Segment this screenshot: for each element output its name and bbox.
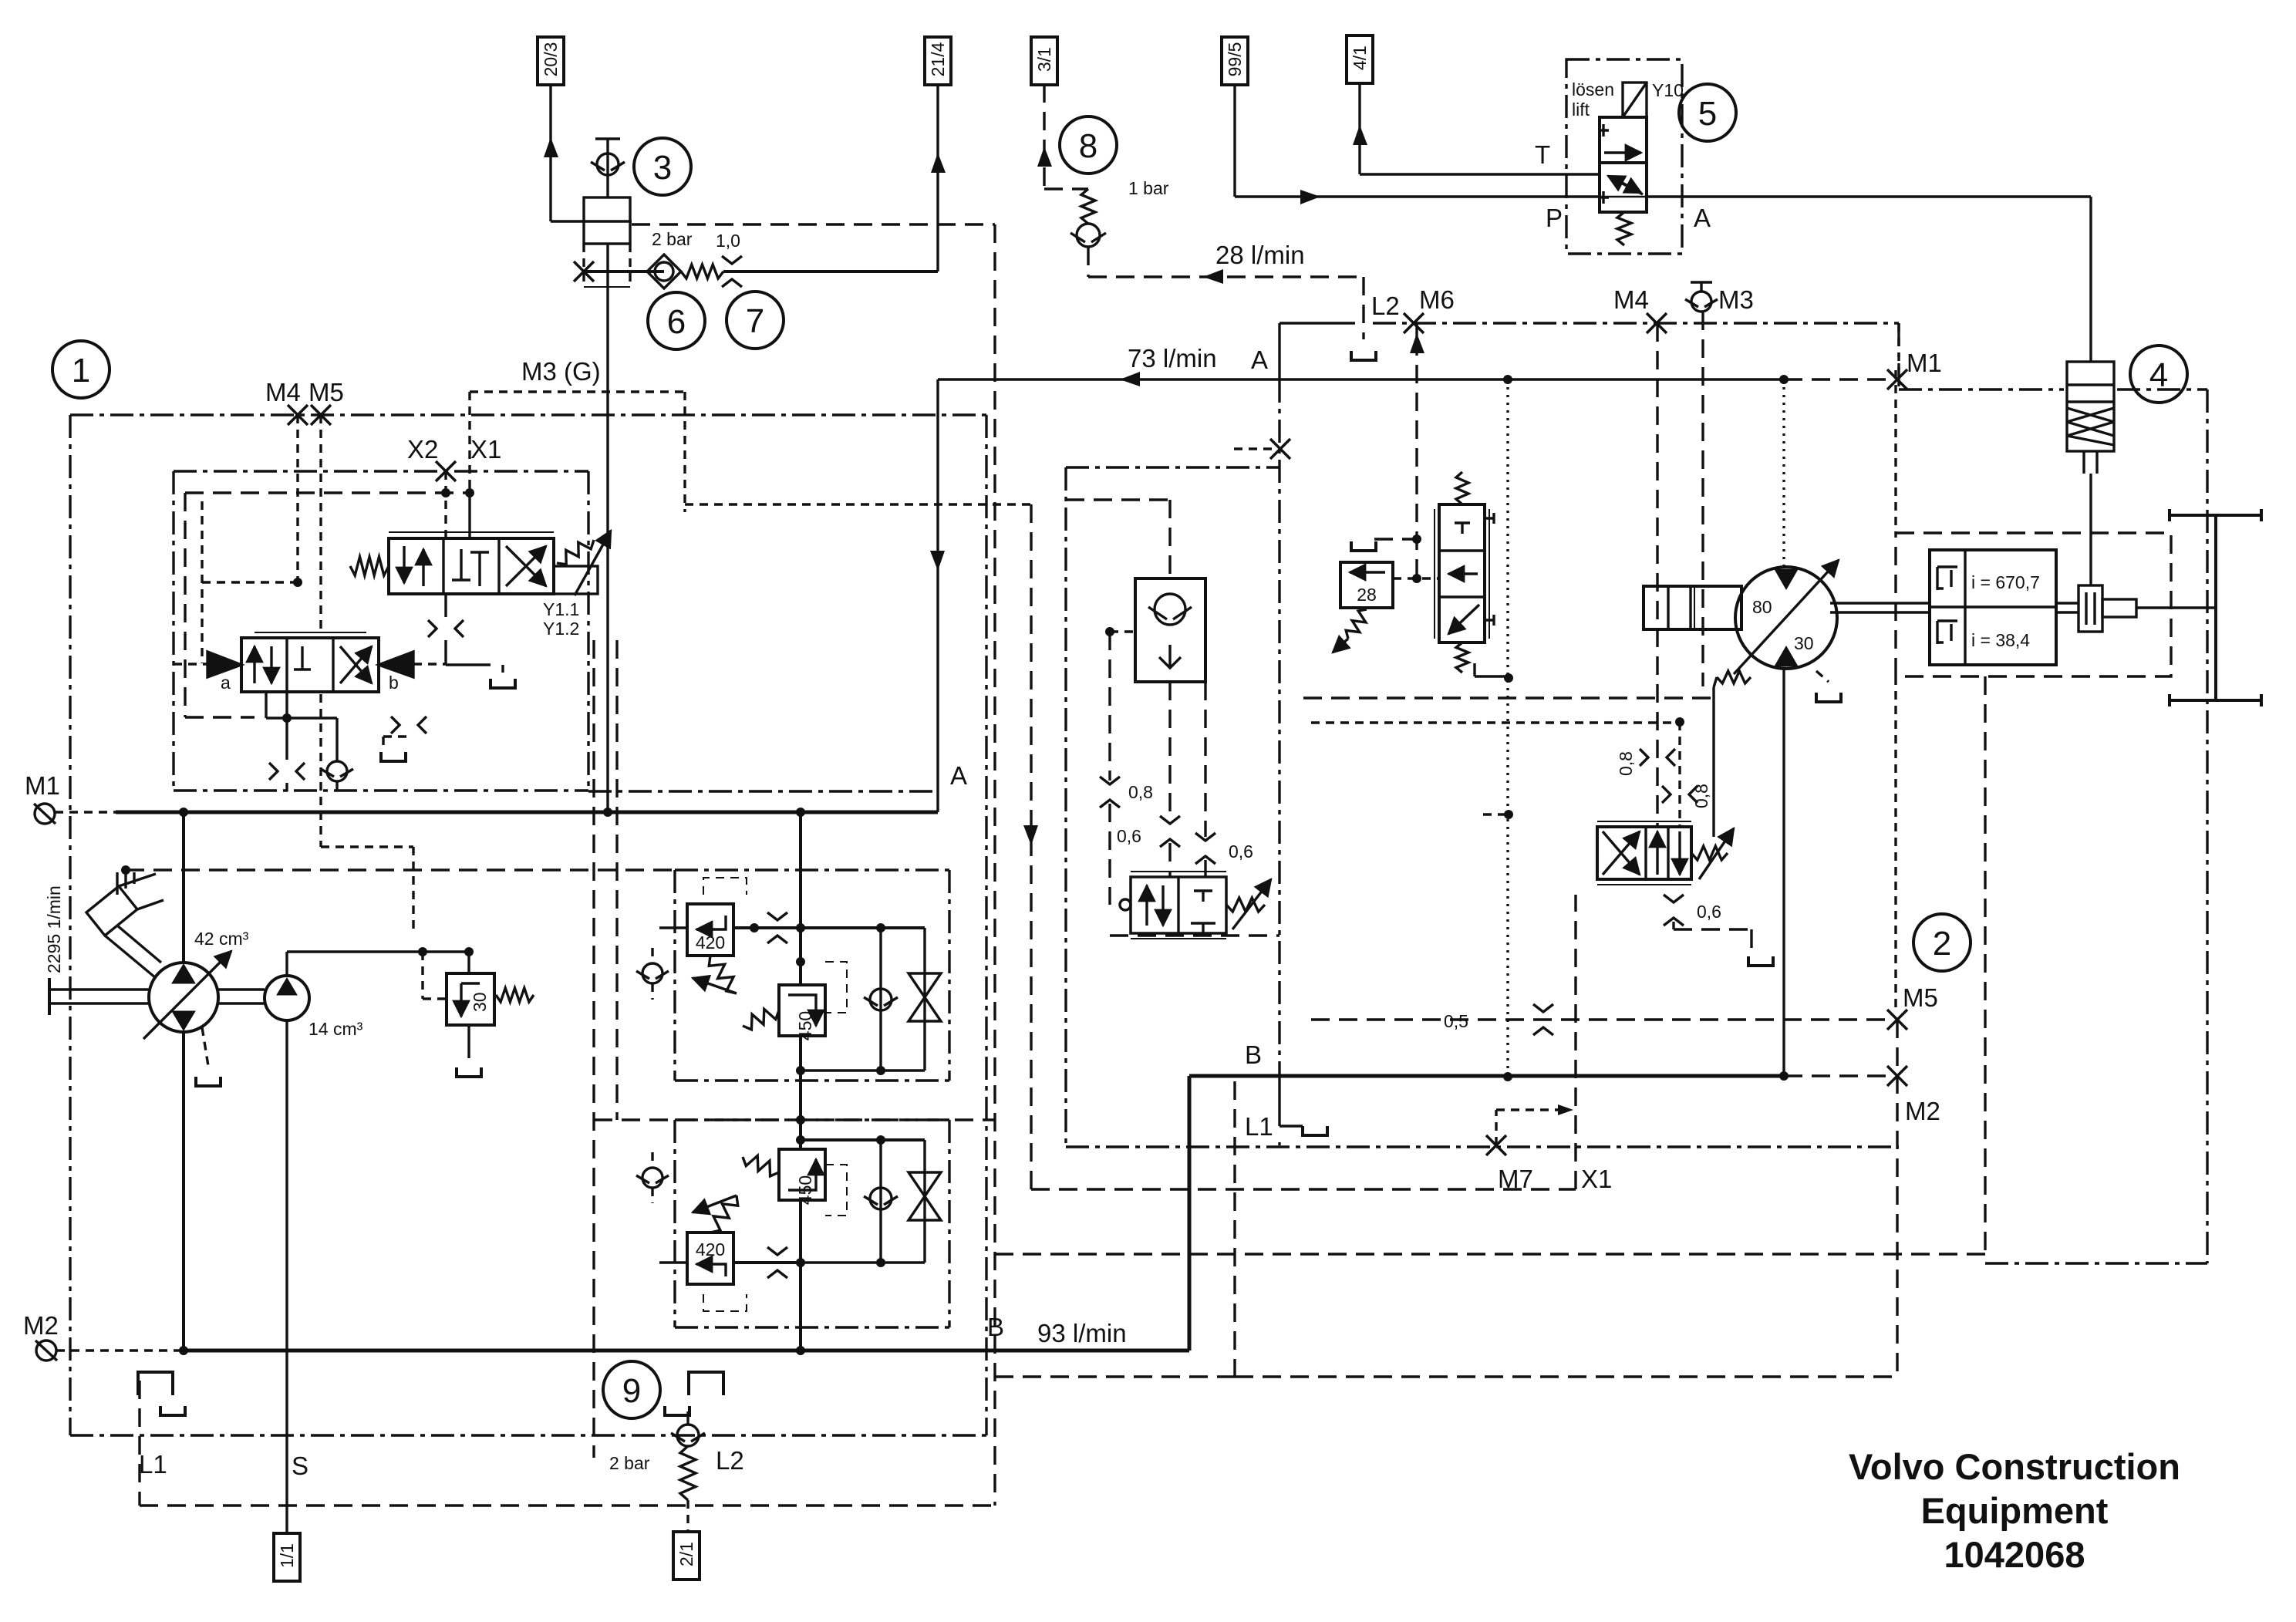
connector 4/1 — [1347, 35, 1373, 83]
dashed M3G box right — [683, 392, 686, 512]
dashed rail y1785 — [1235, 1375, 1899, 1378]
svg-text:0,6: 0,6 — [1117, 826, 1141, 846]
tank flushing — [1748, 956, 1773, 966]
svg-text:X1: X1 — [470, 435, 501, 464]
dashed between clusters — [594, 1118, 995, 1121]
svg-text:Y1.2: Y1.2 — [543, 619, 579, 639]
svg-text:X2: X2 — [407, 435, 438, 464]
svg-text:i = 38,4: i = 38,4 — [1971, 630, 2030, 650]
tank under 30 — [457, 1067, 481, 1077]
svg-text:M2: M2 — [1905, 1097, 1940, 1125]
wire M4 drop — [1656, 323, 1658, 827]
dashed pilot line upper — [185, 491, 470, 494]
svg-text:L2: L2 — [716, 1446, 744, 1475]
svg-text:b: b — [389, 673, 399, 693]
solenoid b — [379, 652, 413, 677]
svg-text:T: T — [1535, 140, 1550, 169]
item number 6 — [648, 292, 705, 349]
dashed pilot down — [1108, 632, 1111, 781]
svg-text:28: 28 — [1357, 585, 1377, 605]
dashed stub to tank — [1374, 538, 1417, 540]
wire M3 drop — [1701, 312, 1704, 686]
enclosure item 5 — [1566, 59, 1682, 254]
dashed feed left vertical2 — [615, 640, 618, 1120]
proportional valve Y1.1/Y1.2 — [389, 538, 554, 594]
port M1 — [35, 804, 55, 824]
flushing valve — [1597, 827, 1691, 879]
wire M1/A main line — [116, 811, 938, 814]
tank under Y1 valve — [491, 679, 515, 688]
boundary E2 top dashdot — [1373, 322, 1899, 324]
boundary E2 top left — [1279, 322, 1355, 324]
boundary E1 top — [70, 413, 986, 416]
wire to 21/4 — [723, 270, 938, 273]
svg-text:21/4: 21/4 — [928, 42, 948, 76]
wire B 93l/min line — [184, 1349, 1189, 1353]
dashed wire to X1 drop — [685, 503, 1031, 505]
check valve 2 bar — [647, 255, 681, 288]
dashed M4 drop E1 — [296, 415, 298, 582]
dashed M3G box left — [468, 392, 470, 493]
tank L1 E1 — [138, 1372, 173, 1395]
shock valve block port B — [675, 1118, 949, 1121]
valve arrows — [1604, 151, 1641, 153]
svg-text:M7: M7 — [1498, 1165, 1533, 1193]
relief 450 upper — [779, 985, 825, 1036]
boundary E2 left edge — [1278, 379, 1280, 1076]
wire X1 pilot to valve — [468, 493, 470, 538]
dashed X1 riser — [1574, 895, 1576, 1189]
svg-text:0,6: 0,6 — [1697, 902, 1721, 922]
wire motor feed — [1782, 379, 1785, 567]
svg-text:M6: M6 — [1419, 285, 1455, 314]
item number 2 — [1913, 914, 1971, 971]
svg-text:2295 1/min: 2295 1/min — [44, 885, 64, 973]
svg-text:20/3: 20/3 — [541, 42, 561, 77]
test point M4 (E2) — [1647, 313, 1667, 333]
svg-text:M2: M2 — [23, 1311, 59, 1340]
wire 99/5 drop — [1233, 84, 1236, 197]
svg-text:1,0: 1,0 — [716, 231, 740, 251]
wire pump to M1 line — [182, 812, 185, 963]
anti-cavitation cluster2 — [923, 1140, 925, 1263]
anti-cavitation cluster1 — [923, 928, 925, 1071]
svg-text:1/1: 1/1 — [277, 1543, 297, 1568]
svg-text:M4: M4 — [265, 378, 301, 406]
test point M1 — [1887, 369, 1907, 389]
motor drain — [1717, 671, 1751, 683]
test point M6 drop — [1410, 333, 1424, 353]
svg-text:2 bar: 2 bar — [609, 1453, 650, 1473]
check valve cluster1 — [879, 928, 882, 1071]
tank motor drain — [1816, 693, 1841, 702]
wire 28 l/min — [1088, 275, 1364, 278]
wire down to item 4 — [2089, 197, 2092, 362]
svg-text:1: 1 — [72, 352, 90, 389]
proportional solenoid — [554, 566, 598, 594]
svg-text:0,8: 0,8 — [1128, 782, 1153, 802]
svg-text:420: 420 — [696, 932, 725, 953]
wire motor to B — [1782, 669, 1785, 1076]
svg-text:M3: M3 — [1718, 285, 1754, 314]
wire 20/3 drop — [549, 85, 551, 221]
svg-text:A: A — [950, 761, 967, 790]
dashed pilot to solenoid a — [174, 663, 207, 665]
check valve above filter — [606, 139, 609, 197]
svg-text:lift: lift — [1572, 99, 1590, 120]
svg-text:30: 30 — [470, 992, 490, 1012]
svg-text:8: 8 — [1079, 127, 1097, 165]
relief 450 lower — [779, 1149, 825, 1200]
dashed pilot left — [184, 493, 186, 717]
svg-text:30: 30 — [1794, 633, 1814, 653]
port M2 — [36, 1340, 56, 1361]
svg-text:450: 450 — [795, 1175, 815, 1205]
boundary E1 left — [69, 415, 71, 1435]
tank near 28 valve — [1351, 541, 1376, 551]
connector 2/1 — [673, 1532, 700, 1580]
dashed pilot to solenoid b — [413, 663, 446, 665]
svg-text:7: 7 — [746, 302, 764, 340]
svg-text:42 cm³: 42 cm³ — [194, 929, 249, 949]
wire 4/1 drop — [1358, 82, 1360, 174]
check valve feed A — [642, 963, 663, 983]
check valve block E2 — [1135, 578, 1205, 682]
test point M5 E1 — [311, 405, 331, 425]
svg-text:99/5: 99/5 — [1225, 42, 1245, 77]
hydraulic motor 80/30 — [1735, 567, 1837, 669]
svg-text:1 bar: 1 bar — [1128, 178, 1169, 198]
svg-text:a: a — [221, 673, 231, 693]
svg-text:Volvo Construction: Volvo Construction — [1849, 1446, 2180, 1487]
boundary E2 corner down — [1897, 323, 1900, 370]
item number 5 — [1679, 84, 1736, 141]
test point M2 — [1887, 1066, 1907, 1086]
svg-text:L1: L1 — [1245, 1112, 1273, 1141]
dashed X1 pilot down — [1030, 504, 1032, 1189]
check valve M3 — [1691, 292, 1711, 312]
dashed rail y937 — [1311, 721, 1680, 723]
dashed M5/M2 vertical — [1896, 1020, 1898, 1377]
svg-text:5: 5 — [1698, 95, 1717, 133]
svg-text:i = 670,7: i = 670,7 — [1971, 572, 2040, 592]
dotted drain x1955 — [1506, 379, 1509, 1077]
gearbox — [1930, 550, 2056, 665]
dashed right vertical upper — [1894, 370, 1896, 533]
throttle 1,0 — [722, 256, 742, 264]
suction strainer — [86, 886, 137, 936]
dashed X2 pilot to valve — [444, 471, 447, 538]
dashed rail y1626 — [995, 1253, 1985, 1255]
svg-text:A: A — [1694, 204, 1711, 232]
svg-text:3: 3 — [653, 149, 672, 187]
control valve 3-stack — [1439, 504, 1485, 642]
dashed right vertical lower — [1894, 676, 1896, 1010]
svg-text:X1: X1 — [1581, 1165, 1612, 1193]
port L1 E2 — [1278, 1076, 1280, 1126]
wire cluster1 vertical — [799, 812, 802, 1081]
wire aux pump out — [285, 952, 288, 975]
svg-text:1042068: 1042068 — [1944, 1534, 2085, 1575]
dashed wire filter bypass east — [632, 223, 995, 225]
wire cluster2 vertical — [799, 1081, 802, 1327]
tank near item9 — [689, 1372, 723, 1395]
wire 21/4 drop — [936, 85, 939, 271]
svg-text:2/1: 2/1 — [676, 1542, 696, 1566]
solenoid valve Y10 body — [1600, 117, 1647, 163]
svg-text:420: 420 — [696, 1239, 725, 1259]
wire to filter — [551, 220, 632, 222]
svg-text:3/1: 3/1 — [1034, 47, 1054, 72]
wire B line E2 — [1189, 1074, 1784, 1078]
svg-text:2: 2 — [1933, 925, 1951, 963]
item number 7 — [727, 292, 784, 349]
wire T line — [1360, 173, 1600, 175]
item number 1 — [52, 341, 110, 398]
dashed M5 line — [1311, 1018, 1888, 1020]
svg-text:M3 (G): M3 (G) — [521, 357, 601, 386]
boundary segment to A riser — [588, 790, 938, 792]
boundary inner block E1 — [174, 470, 588, 472]
valve spring bottom — [1617, 212, 1631, 245]
wire pump to M2 line — [182, 1032, 185, 1351]
wire 3/1 drop — [1043, 84, 1045, 189]
tank pump drain — [196, 1077, 221, 1086]
svg-text:S: S — [292, 1452, 308, 1480]
throttle 0,8 pair — [1640, 749, 1648, 766]
svg-text:450: 450 — [795, 1011, 815, 1040]
wire valve drain — [444, 594, 447, 617]
tank small under b — [381, 752, 406, 761]
item number 9 — [603, 1361, 660, 1418]
tank L1 E2 — [1303, 1126, 1327, 1135]
drive shaft — [49, 988, 149, 990]
svg-text:0,8: 0,8 — [1691, 784, 1711, 808]
test point X2 — [436, 461, 456, 481]
dashed vertical x2574 — [1984, 676, 1986, 1254]
wire S to 1/1 — [285, 1020, 288, 1533]
wire valve a/b drain — [285, 692, 288, 760]
dashed pilot rail — [321, 845, 413, 848]
dashed box around 28l subcircuit — [1110, 934, 1279, 936]
boundary E1 bottom — [70, 1434, 986, 1436]
gearbox dashed enclosure — [1896, 533, 2171, 676]
wire A 73l/min line — [938, 378, 1784, 380]
relief 420 upper — [687, 904, 733, 956]
connector 3/1 — [1031, 37, 1057, 85]
test point M6 — [1404, 313, 1424, 333]
dashed feed to check block — [1168, 500, 1171, 578]
pilot port small valve — [1120, 899, 1131, 910]
wire valve to junction — [1473, 663, 1475, 676]
dashed X1 pilot east — [1031, 1188, 1576, 1190]
svg-text:M1: M1 — [25, 771, 60, 800]
svg-text:0,6: 0,6 — [1229, 841, 1253, 862]
test point M7 — [1486, 1135, 1506, 1155]
svg-text:B: B — [987, 1313, 1004, 1341]
boundary E2 bottom w/ M7 — [1066, 1145, 1899, 1148]
check valve under a/b — [327, 761, 347, 781]
check valve 2bar L2 — [677, 1425, 699, 1446]
relief valve 30 — [467, 952, 470, 973]
dashed L1 drain down — [1233, 1081, 1236, 1377]
wheel/track symbol — [2214, 515, 2217, 700]
svg-text:2 bar: 2 bar — [652, 229, 693, 249]
connector 21/4 — [925, 37, 951, 85]
plugged port on filter line — [574, 261, 594, 282]
dashed check block down1 — [1168, 682, 1171, 820]
item number 4 — [2130, 346, 2187, 403]
svg-text:L2: L2 — [1371, 292, 1400, 320]
wire A riser E2 — [1278, 323, 1280, 379]
item number 8 — [1060, 116, 1117, 174]
svg-text:Y1.1: Y1.1 — [543, 599, 579, 619]
svg-text:M5: M5 — [1903, 983, 1938, 1012]
dashed feed left vertical — [592, 640, 595, 1458]
E2 right boundary — [1897, 323, 1900, 389]
wire B riser — [1188, 1076, 1192, 1351]
check valve feed B — [642, 1168, 663, 1188]
pressure valve small E2 — [1131, 877, 1226, 933]
wire to flushing spring — [1712, 687, 1714, 837]
shaft — [1830, 602, 1930, 604]
wire A line to brake — [1645, 195, 2091, 197]
dashed M3G box top — [470, 390, 685, 393]
svg-text:0,5: 0,5 — [1444, 1011, 1468, 1031]
dashed 28 to control valve — [1393, 577, 1439, 579]
check valve cluster2 — [879, 1140, 882, 1263]
test point M4 E1 — [288, 405, 308, 425]
test point M5 — [1887, 1010, 1907, 1030]
svg-text:A: A — [1251, 346, 1268, 374]
wire 2bar line — [584, 270, 664, 273]
svg-text:0,8: 0,8 — [1616, 751, 1636, 776]
boundary E1 right — [985, 415, 987, 1435]
pump case drain — [202, 1027, 208, 1066]
motor control cylinder — [1644, 586, 1741, 629]
filter housing — [584, 197, 630, 244]
reducing valve 28 — [1340, 562, 1393, 608]
svg-text:M5: M5 — [308, 378, 344, 406]
relief valve 1 bar (item 8) — [1081, 189, 1095, 224]
svg-text:14 cm³: 14 cm³ — [308, 1019, 363, 1039]
svg-text:Y10: Y10 — [1652, 80, 1684, 100]
dashed M5 drop lower — [319, 694, 322, 847]
connector 1/1 — [274, 1533, 300, 1581]
directional valve a/b — [241, 638, 379, 692]
solenoid a — [207, 652, 241, 677]
svg-text:M4: M4 — [1613, 285, 1649, 314]
wire P line — [1235, 195, 1600, 197]
svg-text:P: P — [1546, 204, 1563, 232]
svg-text:80: 80 — [1752, 597, 1772, 617]
dashed suction rail — [126, 868, 675, 871]
relief 420 lower — [687, 1233, 733, 1284]
wire L2 drop — [1362, 277, 1364, 339]
svg-text:lösen: lösen — [1572, 79, 1614, 99]
dashed bottom rail — [140, 1504, 995, 1506]
svg-text:93 l/min: 93 l/min — [1037, 1319, 1127, 1347]
item number 3 — [634, 138, 691, 195]
brake cylinder item 4 — [2067, 362, 2114, 451]
dashed rail y905 — [1303, 696, 1716, 699]
wire A riser x1216 — [936, 379, 939, 812]
aux pump 14cm3 — [265, 976, 309, 1020]
svg-text:9: 9 — [622, 1372, 641, 1410]
svg-text:M1: M1 — [1907, 349, 1942, 377]
dashed check block down2 — [1204, 682, 1206, 837]
boundary 28l subcircuit top — [1066, 466, 1279, 468]
boundary 28l subcircuit left — [1064, 467, 1067, 1147]
svg-text:Equipment: Equipment — [1921, 1490, 2109, 1531]
svg-text:B: B — [1245, 1040, 1262, 1069]
dashed wire down right of E1 — [993, 224, 996, 1506]
svg-text:73 l/min: 73 l/min — [1128, 344, 1217, 373]
shock valve block port A — [675, 868, 949, 871]
test point on E2 left — [1270, 439, 1290, 459]
wire to check — [335, 718, 338, 760]
svg-text:28 l/min: 28 l/min — [1215, 241, 1305, 269]
dashed M5 drop E1 — [319, 415, 322, 632]
coupling — [2079, 585, 2102, 632]
svg-text:L1: L1 — [139, 1450, 167, 1479]
connector 99/5 — [1222, 37, 1248, 85]
tank L2 — [1351, 351, 1376, 360]
wire filter down to M1 line — [606, 244, 609, 812]
dashed drop to flushing valve — [1678, 722, 1681, 827]
svg-text:4/1: 4/1 — [1350, 46, 1370, 70]
connector 20/3 — [538, 37, 564, 85]
svg-text:6: 6 — [667, 303, 686, 341]
